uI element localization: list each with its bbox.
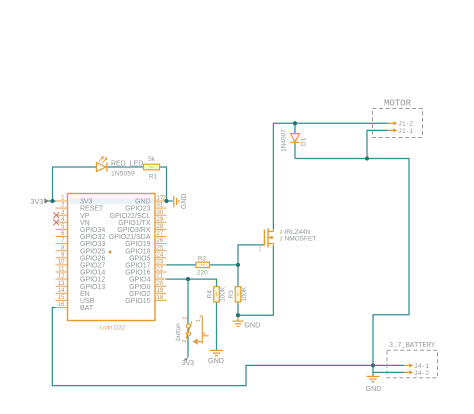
svg-text:GND: GND	[366, 384, 382, 393]
svg-text:EN: EN	[80, 291, 90, 298]
svg-text:J1-1: J1-1	[398, 128, 413, 135]
svg-text:GND: GND	[181, 194, 188, 210]
svg-text:11: 11	[58, 267, 65, 273]
svg-text:29: 29	[157, 217, 164, 223]
R2 name label	[198, 256, 207, 263]
wire diode bottom bus to right side	[295, 159, 409, 366]
svg-text:GPIO25: GPIO25	[80, 248, 105, 255]
MOSFET name label IRLZ44N	[285, 229, 311, 236]
MOSFET value label NMOSFET	[285, 235, 317, 242]
GND label at battery junction	[366, 384, 382, 393]
pin stubs left side pins 1-16	[56, 201, 68, 308]
R1 name label	[149, 173, 158, 180]
button pin number 1	[196, 319, 202, 322]
diode D1 1N4007	[291, 134, 300, 143]
svg-text:3V3: 3V3	[31, 197, 44, 206]
D1 value label 1N4007	[280, 129, 287, 152]
svg-text:GPIO27: GPIO27	[80, 263, 105, 270]
net flag 3V3 below button	[182, 357, 195, 367]
svg-text:GPIO18: GPIO18	[125, 248, 150, 255]
connector pin J1-1	[389, 128, 414, 135]
MOSFET pin number 2 drain	[280, 230, 283, 236]
svg-text:R1: R1	[149, 173, 158, 180]
pin numbers right 17-31	[157, 196, 167, 301]
svg-text:26: 26	[157, 238, 164, 244]
button S1	[186, 316, 209, 345]
svg-text:NMOSFET: NMOSFET	[285, 235, 317, 242]
ground symbol at battery junction	[367, 376, 380, 381]
IC polarity dot	[108, 250, 111, 253]
wire R2 to gate node	[210, 264, 239, 266]
svg-text:13: 13	[58, 281, 65, 287]
svg-text:R3: R3	[228, 290, 235, 299]
svg-text:GND: GND	[244, 320, 260, 329]
svg-text:220: 220	[197, 269, 208, 276]
wire BAT bottom bus to battery junction	[52, 308, 404, 386]
wire gate node down to R3	[237, 265, 239, 287]
svg-text:23: 23	[157, 260, 164, 266]
svg-text:GPIO32: GPIO32	[80, 234, 105, 241]
svg-text:GND: GND	[208, 356, 224, 365]
svg-text:15: 15	[58, 295, 65, 301]
IC value label Lolin D32	[100, 326, 126, 332]
svg-text:GPIO19: GPIO19	[125, 241, 150, 248]
connector J4 dashed outline	[387, 350, 438, 378]
wire battery junction to GND and J4-2	[373, 365, 404, 376]
junction node diode anode	[293, 121, 297, 125]
pin stubs right side pins 17-31	[155, 201, 167, 300]
svg-text:GPIO0: GPIO0	[129, 284, 151, 291]
svg-text:GPIO12: GPIO12	[80, 277, 105, 284]
GND label at pin 17	[181, 194, 188, 210]
svg-text:MOTOR: MOTOR	[384, 99, 412, 109]
svg-text:J1-2: J1-2	[398, 121, 413, 128]
wire MOSFET source to ground junction	[238, 246, 273, 315]
svg-text:button: button	[175, 323, 182, 341]
svg-text:24: 24	[157, 252, 164, 258]
svg-text:4: 4	[202, 332, 208, 335]
svg-text:1N5059: 1N5059	[111, 171, 135, 178]
svg-text:3V3: 3V3	[182, 360, 195, 367]
wire 3V3 flag to pin 1	[49, 200, 56, 202]
svg-text:USB: USB	[80, 298, 95, 305]
highlight band on pin row 1	[68, 198, 154, 205]
MOSFET pin number 3 source	[280, 237, 283, 243]
wire diode branch	[294, 123, 296, 158]
R3 value label 100K	[241, 286, 248, 302]
svg-text:GPIO15: GPIO15	[125, 298, 150, 305]
no-connect X on pin 3 VP	[53, 212, 59, 218]
svg-text:GPIO14: GPIO14	[80, 270, 105, 277]
wire 3V3 to LED anode	[53, 167, 97, 201]
net flag 3V3 at pin 1	[31, 197, 50, 206]
svg-text:GPIO2: GPIO2	[129, 291, 151, 298]
wire MOSFET drain to motor J1-2	[273, 123, 388, 229]
LED name label RED_LED	[111, 161, 143, 168]
svg-text:J4-2: J4-2	[414, 370, 429, 377]
svg-text:2: 2	[182, 339, 188, 342]
svg-text:GPIO16: GPIO16	[125, 270, 150, 277]
svg-text:GPIO33: GPIO33	[80, 241, 105, 248]
svg-text:BAT: BAT	[80, 305, 94, 312]
svg-text:GPIO21/SDA: GPIO21/SDA	[109, 234, 151, 241]
svg-text:100K: 100K	[219, 286, 226, 302]
svg-text:12: 12	[58, 274, 65, 280]
junction node GPIO4 button	[186, 277, 190, 281]
svg-text:5k: 5k	[148, 156, 156, 163]
button name label	[175, 323, 182, 341]
wire GPIO17 to R2	[167, 264, 197, 266]
MOSFET Q1 IRLZ44N	[264, 228, 273, 247]
svg-text:2: 2	[280, 230, 283, 236]
ground symbol at GND pin 17 (rotated)	[174, 196, 179, 208]
R4 name label	[206, 290, 213, 299]
svg-text:GPIO23: GPIO23	[125, 206, 150, 213]
junction node gate divider	[236, 263, 240, 267]
svg-text:1: 1	[196, 319, 202, 322]
svg-text:Lolin D32: Lolin D32	[100, 326, 126, 332]
svg-text:GPIO34: GPIO34	[80, 227, 105, 234]
svg-text:3V3: 3V3	[80, 199, 93, 206]
resistor R2	[196, 262, 210, 267]
svg-text:20: 20	[157, 281, 164, 287]
button pin number 2	[182, 316, 188, 319]
svg-text:16: 16	[58, 302, 65, 308]
pin numbers left 1-16	[58, 196, 65, 309]
junction node GND pin 17	[164, 199, 168, 203]
resistor R4	[214, 287, 220, 302]
svg-text:28: 28	[157, 224, 164, 230]
svg-text:GPIO26: GPIO26	[80, 255, 105, 262]
LED RED_LED	[97, 157, 107, 172]
svg-text:GPIO5: GPIO5	[129, 255, 151, 262]
ground symbol below R3	[232, 315, 243, 326]
GND label below R4	[208, 356, 224, 365]
svg-text:30: 30	[157, 210, 164, 216]
wire R4 to ground symbol	[216, 302, 218, 350]
svg-text:21: 21	[157, 274, 164, 280]
R4 value label 100K	[219, 286, 226, 302]
svg-text:RED_LED: RED_LED	[111, 161, 143, 168]
LED value label 1N5059	[111, 171, 135, 178]
svg-text:27: 27	[157, 231, 164, 237]
junction node pin1 3V3	[50, 199, 54, 203]
connector pin J4-2	[404, 370, 429, 377]
connector pin J1-2	[389, 121, 414, 128]
svg-text:22: 22	[157, 267, 164, 273]
svg-text:VP: VP	[80, 213, 90, 220]
R2 value label 220	[197, 269, 208, 276]
svg-text:14: 14	[58, 288, 65, 294]
junction node J1-1 branch	[365, 156, 369, 160]
connector pin J4-1	[404, 363, 429, 370]
junction node R3 ground	[236, 313, 240, 317]
pin names left column	[80, 199, 105, 313]
wire GPIO4 to R4	[167, 279, 217, 287]
no-connect X on pin 4 VN	[53, 219, 59, 225]
svg-text:19: 19	[157, 288, 164, 294]
MOSFET pin number 1 gate	[259, 247, 262, 253]
svg-text:25: 25	[157, 245, 164, 251]
svg-text:GND: GND	[135, 199, 151, 206]
svg-text:GPIO3/RX: GPIO3/RX	[117, 227, 150, 234]
svg-text:10: 10	[58, 260, 65, 266]
GND label below R3	[244, 320, 260, 329]
IC U1 Lolin D32 ESP32 module body	[68, 194, 156, 321]
svg-text:GPIO1/TX: GPIO1/TX	[118, 220, 151, 227]
button pin number 4	[202, 332, 208, 335]
junction node battery positive	[371, 363, 375, 367]
svg-text:GPIO4: GPIO4	[129, 277, 151, 284]
svg-text:1: 1	[259, 247, 262, 253]
wire gate node up to MOSFET gate	[238, 245, 264, 265]
svg-text:VN: VN	[80, 220, 90, 227]
svg-text:2: 2	[182, 316, 188, 319]
connector J4 3.7_BATTERY label	[389, 342, 436, 350]
svg-text:GPIO22/SCL: GPIO22/SCL	[110, 213, 151, 220]
wire GPIO4 node to button and 3V3 flag	[187, 279, 189, 357]
ground symbol below R4	[210, 350, 223, 355]
svg-text:1N4007: 1N4007	[280, 129, 287, 152]
D1 name label	[301, 137, 308, 146]
connector J1 dashed outline	[373, 109, 423, 138]
svg-text:D1: D1	[301, 137, 308, 146]
svg-text:GPIO13: GPIO13	[80, 284, 105, 291]
svg-text:100K: 100K	[241, 286, 248, 302]
svg-text:RESET: RESET	[80, 206, 104, 213]
svg-text:18: 18	[157, 295, 164, 301]
wire J1-1 branch	[367, 130, 389, 158]
svg-text:31: 31	[157, 203, 164, 209]
wire R1 to GND pin junction	[160, 167, 167, 201]
wire LED cathode to R1	[108, 166, 144, 168]
button pin number 3	[182, 339, 188, 342]
resistor R1	[144, 164, 160, 170]
svg-text:3: 3	[280, 237, 283, 243]
wire GND pin to ground symbol	[167, 200, 173, 202]
pin names right column	[109, 199, 151, 305]
svg-text:3.7_BATTERY: 3.7_BATTERY	[389, 342, 436, 350]
svg-text:R4: R4	[206, 290, 213, 299]
svg-text:J4-1: J4-1	[414, 363, 429, 370]
wire R3 to ground junction	[237, 302, 239, 315]
R3 name label	[228, 290, 235, 299]
resistor R3	[235, 287, 241, 302]
R1 value label 5k	[148, 156, 156, 163]
svg-text:GPIO17: GPIO17	[125, 263, 150, 270]
connector J1 MOTOR label	[384, 99, 412, 109]
svg-text:R2: R2	[198, 256, 207, 263]
